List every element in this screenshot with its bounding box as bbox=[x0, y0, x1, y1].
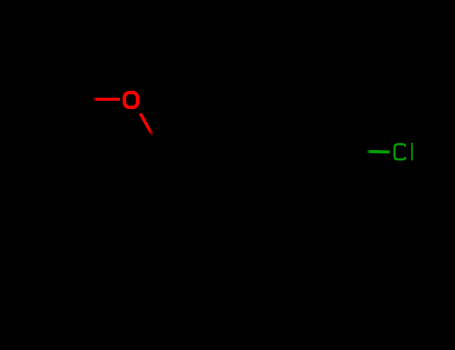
aromatic inner double bonds (black on black) bbox=[312, 122, 342, 125]
benzene ring C1-C2-C3-C4-C5-C6 (black on black) bbox=[286, 117, 366, 186]
bond C7-C1 chain to ring (black on black) bbox=[153, 136, 286, 152]
bond O1-C7 oxygen-to-CH (red fading to black) bbox=[140, 113, 153, 136]
bond C4-Cl (green half, fading from black) bbox=[366, 150, 388, 153]
atom Cl (chlorine label, letter l) bbox=[411, 143, 413, 161]
bond O1-C8 methyl-to-oxygen (red half) bbox=[93, 98, 120, 101]
atom O1 (oxygen label) bbox=[124, 93, 137, 108]
atom Cl (chlorine label, letter C) bbox=[394, 144, 405, 159]
bond C8-C9 (ethyl terminal, black on black) bbox=[74, 65, 94, 100]
